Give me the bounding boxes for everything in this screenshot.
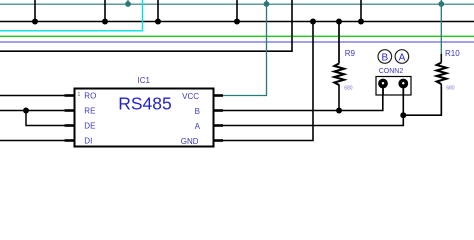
wire: black vertical drop x158: [157, 0, 159, 22]
wire: DE branch wire: [26, 111, 75, 126]
connector CONN2 body: [376, 77, 411, 96]
wire: teal VCC bus horizontal top: [0, 3, 474, 5]
wire: black net vertical x292 + horizontal y51: [0, 0, 292, 51]
svg-text:RE: RE: [84, 107, 95, 116]
node: junction x35: [32, 19, 38, 25]
wire: teal riser x441.3 to R10: [440, 0, 442, 55]
wire: black vertical drop x35: [34, 0, 36, 22]
wire: black vertical drop x237: [236, 0, 238, 22]
wire: RO wire from left edge: [0, 95, 75, 97]
node: junction A/R10: [400, 112, 406, 118]
pin RO stub: [65, 94, 76, 97]
node: junction x339: [336, 19, 342, 25]
pin DE stub: [65, 124, 76, 127]
node: teal junction x266.5: [264, 1, 270, 7]
resistor R10: [437, 49, 461, 115]
wire: RE wire from left edge: [0, 110, 75, 112]
svg-text:CONN2: CONN2: [379, 68, 404, 75]
pin RE stub: [65, 109, 76, 112]
pin B stub: [213, 109, 223, 112]
node: junction R9/B: [336, 108, 342, 114]
svg-text:IC1: IC1: [138, 76, 151, 85]
svg-text:R10: R10: [445, 49, 460, 58]
node: junction x105: [102, 19, 108, 25]
wire: GND net IC to top bus: [223, 22, 313, 141]
wire: DI wire from left edge: [0, 140, 75, 142]
node B circled label: [378, 50, 392, 64]
svg-text:680: 680: [344, 85, 353, 91]
wire: R10 bottom link: [403, 87, 441, 115]
svg-text:A: A: [399, 52, 406, 63]
svg-text:DI: DI: [84, 137, 92, 146]
node: junction x361: [358, 19, 364, 25]
pin DI stub: [65, 139, 76, 142]
svg-text:RO: RO: [84, 92, 96, 101]
svg-text:RS485: RS485: [118, 94, 172, 114]
svg-text:R9: R9: [345, 49, 356, 58]
wire: teal VCC riser x266.5 to VCC pin: [223, 0, 267, 96]
pin A stub: [213, 124, 223, 127]
pin GND stub: [213, 139, 223, 142]
resistor R9: [334, 22, 355, 111]
pin CONN2-B ring: [378, 79, 388, 96]
wire: purple net horizontal: [0, 41, 474, 43]
node: teal junction x128: [125, 1, 131, 7]
op-amp U1 : RS485 transceiver IC1 body: [75, 89, 214, 147]
svg-text:680: 680: [446, 85, 455, 91]
wire: black bus horizontal y21.5: [0, 21, 474, 23]
svg-text:DE: DE: [84, 122, 95, 131]
wire: A net IC to CONN2 pin A: [223, 88, 403, 126]
svg-text:B: B: [381, 52, 388, 63]
wire: B net IC to CONN2 pin B: [223, 88, 383, 111]
node: junction x158: [155, 19, 161, 25]
node: teal junction x441.3: [438, 1, 444, 7]
pin CONN2-A ring: [398, 79, 408, 96]
wire: teal VCC riser stub x128: [127, 0, 129, 4]
node: junction RE/DE: [23, 108, 29, 114]
node: junction x313: [310, 19, 316, 25]
node: junction x237: [234, 19, 240, 25]
pin VCC stub: [213, 94, 223, 97]
svg-text:A: A: [195, 122, 201, 131]
node A circled label: [395, 50, 409, 64]
pin stubs left: [65, 96, 224, 141]
wire: green net horizontal: [0, 35, 474, 37]
svg-text:B: B: [195, 107, 200, 116]
wire: black vertical drop x361: [360, 0, 362, 22]
wire: cyan net L-shape: [0, 0, 143, 31]
wire: black vertical drop x105: [104, 0, 106, 22]
svg-text:VCC: VCC: [182, 92, 199, 101]
svg-text:1: 1: [78, 92, 81, 98]
svg-text:GND: GND: [181, 137, 199, 146]
